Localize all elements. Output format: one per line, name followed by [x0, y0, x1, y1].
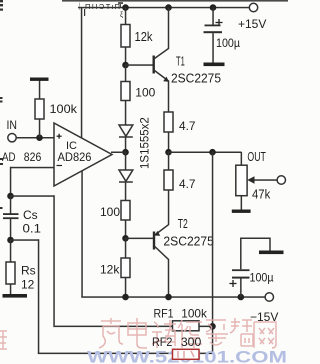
svg-text:AD: AD [2, 150, 16, 164]
wire op-amp output [111, 152, 126, 154]
node rail-12k lower [122, 294, 129, 301]
wire RF2 row [38, 353, 213, 355]
wire T1 base [126, 64, 154, 66]
diode D2 1S1555 [119, 170, 133, 182]
svg-text:12k: 12k [100, 263, 120, 277]
terminal IN circle [8, 134, 16, 142]
wire 4.7 lower to T2 emitter [168, 190, 170, 225]
svg-text:100k: 100k [181, 307, 208, 321]
wire IN to op-amp [16, 137, 54, 139]
svg-text:Cs: Cs [23, 208, 38, 222]
svg-text:12k: 12k [135, 30, 154, 44]
capacitor C1 100u plus sign [216, 19, 223, 26]
svg-text:12: 12 [21, 278, 35, 292]
node feedback takeoff [209, 149, 216, 156]
resistor 4.7 lower [164, 170, 173, 190]
svg-text:T1: T1 [176, 55, 185, 69]
wire -15V rail [81, 296, 265, 298]
capacitor C1 100u stem bottom [212, 33, 214, 63]
node RF1 junction [209, 323, 216, 330]
wire C2 top L [241, 238, 270, 269]
node rail-cap [210, 4, 217, 11]
svg-text:2SC2275: 2SC2275 [171, 71, 221, 86]
capacitor C1 100u plates [205, 25, 221, 27]
wire T2 base [126, 238, 154, 240]
node rail-T1collector [165, 4, 172, 11]
ground above 100k [30, 78, 49, 81]
svg-text:Rs: Rs [21, 264, 36, 278]
top edge scan line [62, 0, 288, 2]
capacitor C2 100u lower stem bottom [240, 279, 242, 298]
wire inverting down [10, 167, 12, 197]
node rail-T2 collector [165, 294, 172, 301]
wire 100k bottom [39, 119, 41, 138]
transistor T2 collector [155, 247, 169, 298]
svg-text:T2: T2 [178, 217, 188, 231]
resistor 100k input [35, 99, 44, 119]
resistor RF1 [173, 321, 200, 331]
svg-text:AD826: AD826 [58, 152, 92, 164]
capacitor C1 100u stem top [212, 8, 214, 26]
diode D1 1S1555 [119, 125, 133, 137]
node T2 base junction [122, 235, 129, 242]
wire Rs to ground [10, 284, 12, 294]
wire node to RF2 column [11, 239, 40, 241]
ground under pot [232, 210, 251, 213]
wire op-amp V+ supply [81, 8, 83, 139]
wire chain top [125, 8, 127, 25]
svg-text:100k: 100k [50, 102, 79, 116]
svg-text:OUT: OUT [247, 150, 266, 164]
svg-text:100µ: 100µ [250, 271, 274, 285]
svg-text:RF1: RF1 [154, 307, 174, 321]
transistor T2 emitter with arrow [155, 225, 169, 235]
watermark CJK pink row [0, 318, 276, 349]
resistor Rs [6, 262, 15, 284]
ground under Rs [3, 294, 28, 298]
node IN-100k [36, 134, 43, 141]
wire 100 lower to T2 base node [125, 220, 127, 239]
wire pot bottom [241, 196, 243, 210]
node T1 base junction [122, 62, 129, 69]
transistor T1 base bar [153, 56, 155, 74]
svg-text:+15V: +15V [238, 17, 266, 31]
potentiometer 47k body [236, 165, 247, 196]
garbled caption remnant top [76, 1, 124, 19]
wire RF1 row [53, 326, 212, 328]
ground under C1 [204, 63, 225, 67]
svg-text:RF2: RF2 [152, 335, 173, 349]
svg-text:100: 100 [135, 86, 155, 100]
resistor 100 lower [121, 201, 130, 221]
left edge scan marks [0, 0, 3, 209]
wire 100k top [39, 81, 41, 100]
svg-text:ξ: ξ [120, 12, 123, 19]
svg-text:IC: IC [66, 140, 77, 152]
terminal -15V [265, 293, 273, 301]
wire down to pot top [241, 152, 243, 166]
transistor T1 emitter with arrow [155, 71, 169, 113]
op-amp plus sign [57, 134, 62, 139]
svg-text:100: 100 [100, 205, 120, 219]
wire node to Cs [10, 196, 12, 214]
transistor T2 base bar [153, 232, 155, 250]
svg-text:4.7: 4.7 [179, 119, 196, 133]
node rail-12k [122, 4, 129, 11]
resistor 12k lower [121, 258, 130, 278]
svg-text:1S1555x2: 1S1555x2 [140, 117, 152, 169]
node op-amp output [122, 149, 129, 156]
capacitor C2 plates [232, 269, 250, 271]
wire feedback column A down [53, 195, 55, 325]
wire 12k lower to -15V rail [125, 278, 127, 298]
svg-text:2SC2275: 2SC2275 [163, 234, 214, 249]
node Cs top [7, 193, 14, 200]
svg-text:47k: 47k [252, 188, 271, 202]
wire inverting input horizontal [11, 167, 55, 169]
node rail-cap lower [238, 294, 245, 301]
capacitor Cs plates [3, 213, 19, 215]
ground above C2 [259, 251, 284, 255]
node Cs-Rs junction [7, 237, 14, 244]
terminal OUT circle [277, 176, 285, 184]
wire feedback vertical from out [212, 152, 214, 353]
svg-text:100µ: 100µ [216, 36, 240, 50]
potentiometer wiper arrow [250, 179, 277, 181]
resistor 100 upper [121, 82, 130, 101]
capacitor C2 100u plus sign [230, 280, 237, 287]
wire op-amp V- supply [81, 171, 83, 297]
wire D1 to output node [125, 137, 127, 152]
resistor 12k upper [121, 25, 130, 48]
op-amp U1 AD826 triangle [54, 123, 112, 186]
node emitter out [165, 149, 172, 156]
svg-text:4.7: 4.7 [179, 177, 196, 191]
svg-text:0.1: 0.1 [23, 222, 42, 236]
svg-text:IN: IN [7, 118, 18, 132]
wire 12k to node [125, 47, 127, 65]
wire Cs to node [10, 219, 12, 240]
terminal +15V [249, 3, 257, 11]
wire out node to pot [169, 152, 242, 154]
svg-text:300: 300 [181, 335, 202, 349]
op-amp minus sign [57, 165, 63, 167]
svg-text:826: 826 [24, 150, 42, 164]
wire out node to 4.7 lower [168, 152, 170, 170]
resistor 4.7 upper [164, 112, 173, 132]
wire node to 12k lower [125, 238, 127, 258]
wire D2 to 100 lower [125, 182, 127, 201]
wire 100 to D1 [125, 101, 127, 126]
wire 4.7 upper to out node [168, 132, 170, 153]
wire node to Rs [10, 240, 12, 262]
wire RF2 column B down [38, 239, 40, 353]
wire output node to D2 [125, 152, 127, 170]
transistor T1 collector [155, 8, 169, 59]
wire minus node to feedback column [11, 195, 55, 197]
resistor RF2 [173, 349, 200, 359]
wire +15V top rail [78, 7, 249, 9]
wire node to 100 upper [125, 65, 127, 82]
